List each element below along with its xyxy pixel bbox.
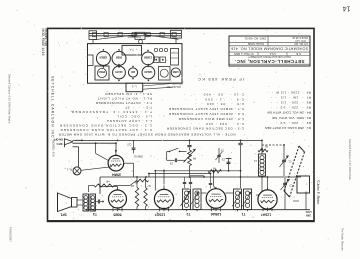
svg-text:35W4: 35W4 — [98, 70, 105, 74]
svg-text:T2: T2 — [186, 212, 190, 216]
svg-text:SCHEMATIC DIAGRAM MODEL NO. 41: SCHEMATIC DIAGRAM MODEL NO. 416 — [231, 46, 308, 50]
svg-text:C-4 - .002 - 400 - -: C-4 - .002 - 400 - - — [190, 122, 244, 126]
svg-text:C10: C10 — [127, 143, 132, 145]
svg-text:C-6 - 20MFD 150V ELECT CONDENS: C-6 - 20MFD 150V ELECT CONDENSER — [168, 112, 244, 116]
svg-text:R5 - 22K - 1/2 - -: R5 - 22K - 1/2 - - — [270, 106, 311, 110]
svg-text:R3 - 500K VOL WITH SW: R3 - 500K VOL WITH SW — [272, 116, 311, 120]
svg-text:12BE6: 12BE6 — [99, 56, 107, 60]
svg-text:SETCHELL CARLSON INC.: SETCHELL CARLSON INC. — [51, 76, 55, 141]
svg-text:R4 - 2M VOL CONT WITH SW: R4 - 2M VOL CONT WITH SW — [267, 111, 311, 115]
svg-text:MOD. PAGE 14-16: MOD. PAGE 14-16 — [41, 29, 45, 56]
svg-text:C-9 - .1 - 200 - -: C-9 - .1 - 200 - - — [184, 97, 244, 101]
svg-text:R1 - 25M GANG 1/2 WATT RES: R1 - 25M GANG 1/2 WATT RES — [265, 126, 311, 130]
svg-text:L-2 - OSC. COIL: L-2 - OSC. COIL — [116, 115, 152, 119]
svg-text:T3: T3 — [93, 212, 97, 216]
svg-text:ST. PAUL 4, MINN.: ST. PAUL 4, MINN. — [233, 52, 254, 55]
svg-text:35W4: 35W4 — [112, 172, 121, 176]
svg-text:T-2 - - - ST: T-2 - - - ST — [125, 106, 152, 110]
svg-text:R6 - 220 - 1/2 - -: R6 - 220 - 1/2 - - — [271, 101, 311, 105]
svg-text:DIAL CORD: DIAL CORD — [127, 35, 141, 38]
svg-text:R2 - 22K - 1/2 -: R2 - 22K - 1/2 - — [276, 121, 311, 125]
svg-text:T1: T1 — [241, 212, 245, 216]
svg-text:SP-1 - 4" PM SPEAKER: SP-1 - 4" PM SPEAKER — [105, 92, 152, 96]
svg-text:L-1 - LOOP ANTENNA: L-1 - LOOP ANTENNA — [106, 119, 152, 123]
svg-text:PL-1: PL-1 — [66, 168, 72, 172]
svg-text:©John F, Rider: ©John F, Rider — [316, 180, 320, 205]
svg-text:Setchell Carlson 4-16 1946 Rid: Setchell Carlson 4-16 1946 Rider Radio — [8, 74, 12, 124]
svg-text:12SQ7: 12SQ7 — [155, 212, 166, 216]
svg-text:NOTE - ALL VOLTAGES MEASURED F: NOTE - ALL VOLTAGES MEASURED FROM SOCKET… — [58, 132, 236, 136]
svg-text:ON-OFF SW.: ON-OFF SW. — [166, 85, 181, 88]
svg-text:35W-GL: 35W-GL — [133, 154, 143, 158]
svg-text:T-A: T-A — [129, 48, 133, 52]
svg-text:C-3 - OSC SECTION GANG CONDENS: C-3 - OSC SECTION GANG CONDENSER — [166, 127, 244, 131]
svg-text:CH. NO. 416: CH. NO. 416 — [294, 42, 308, 45]
svg-text:MODEL 416: MODEL 416 — [52, 140, 56, 157]
svg-text:C-7 - 30MFD 150V ELECT CONDENS: C-7 - 30MFD 150V ELECT CONDENSER — [168, 107, 244, 111]
svg-text:CHK. 4-16: CHK. 4-16 — [295, 39, 306, 41]
svg-text:VOLUME: VOLUME — [172, 81, 183, 84]
svg-text:14: 14 — [343, 5, 351, 12]
svg-text:50B5: 50B5 — [113, 212, 121, 216]
svg-text:12SB: 12SB — [173, 70, 179, 73]
svg-text:R7 - 1M - 1/2 - -: R7 - 1M - 1/2 - - — [271, 95, 311, 99]
svg-text:12BA6: 12BA6 — [144, 70, 153, 74]
svg-text:SCALE: NONE: SCALE: NONE — [248, 42, 264, 45]
svg-text:C-8 - .05 - 400 - -: C-8 - .05 - 400 - - — [195, 102, 244, 106]
svg-text:PL-1 - NO.47 PILOT LIGHT: PL-1 - NO.47 PILOT LIGHT — [97, 97, 152, 101]
svg-text:R8 - 220K - 1/2 W - -: R8 - 220K - 1/2 W - - — [267, 90, 311, 94]
svg-text:12SB6: 12SB6 — [143, 56, 151, 60]
svg-text:IF PEAK 455 KC: IF PEAK 455 KC — [197, 77, 244, 82]
svg-text:U.S.A.: U.S.A. — [269, 52, 276, 55]
svg-text:BO: BO — [131, 70, 135, 74]
svg-text:T-3 - OUTPUT TRANSFORMER: T-3 - OUTPUT TRANSFORMER — [95, 101, 152, 105]
svg-text:12BA6: 12BA6 — [211, 212, 222, 216]
svg-text:C-5 - 250 MMF MICA CONDENSER: C-5 - 250 MMF MICA CONDENSER — [178, 117, 244, 121]
svg-text:L-1: L-1 — [132, 85, 137, 89]
svg-text:C-2 - OSC SECTION GANG CONDENS: C-2 - OSC SECTION GANG CONDENSER — [59, 124, 152, 128]
svg-text:SP1: SP1 — [60, 212, 67, 216]
svg-text:MODEL 416: MODEL 416 — [44, 29, 48, 47]
svg-text:C-1 - ANT SECTION GANG CONDENS: C-1 - ANT SECTION GANG CONDENSER — [59, 128, 152, 132]
svg-text:C-10 - .05 - 400 - -: C-10 - .05 - 400 - - — [182, 92, 244, 96]
svg-text:N. B.: N. B. — [296, 52, 302, 55]
svg-text:249: 249 — [306, 213, 311, 217]
svg-text:The Radio Museum: The Radio Museum — [341, 228, 345, 251]
svg-text:12AT6: 12AT6 — [115, 70, 123, 74]
svg-text:ON-OFF: ON-OFF — [53, 138, 63, 141]
svg-text:RADIO AND ELECTRONIC EQUIPMENT: RADIO AND ELECTRONIC EQUIPMENT — [248, 55, 291, 58]
svg-text:12SA7: 12SA7 — [261, 213, 271, 217]
svg-text:Setchell Carlson 4-16 1946 Rid: Setchell Carlson 4-16 1946 Rider — [348, 139, 352, 180]
svg-text:DATE 5-10-46: DATE 5-10-46 — [292, 36, 308, 39]
svg-text:DWG. NO. 416-S1: DWG. NO. 416-S1 — [244, 37, 266, 41]
svg-text:50B5: 50B5 — [115, 56, 122, 60]
svg-text:T-1 - 455KC I.F. TRANSFORMER: T-1 - 455KC I.F. TRANSFORMER — [71, 110, 152, 114]
